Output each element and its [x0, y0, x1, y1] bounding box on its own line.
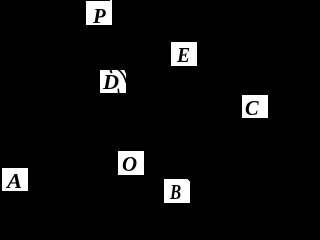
node B label — [164, 179, 190, 203]
overlay fragments of the (otherwise invisible) black construction lines — [0, 0, 270, 205]
node P label — [86, 1, 112, 25]
wire clip at corner of label B — [188, 179, 191, 182]
node D label — [100, 70, 126, 93]
node O label (circle centre) — [118, 151, 144, 175]
figure background (black) — [0, 0, 270, 205]
arc re-entry crossing bottom edge of label D — [117, 89, 120, 94]
node A label — [2, 168, 28, 191]
end of segment PD (tick on top edge of label D) — [110, 70, 111, 74]
circle arc fragment crossing label D — [118, 70, 126, 84]
node E label — [171, 42, 197, 66]
node C label — [242, 95, 268, 118]
corner nub of label P — [110, 0, 112, 2]
clipped top-right corner of label D — [124, 70, 126, 75]
